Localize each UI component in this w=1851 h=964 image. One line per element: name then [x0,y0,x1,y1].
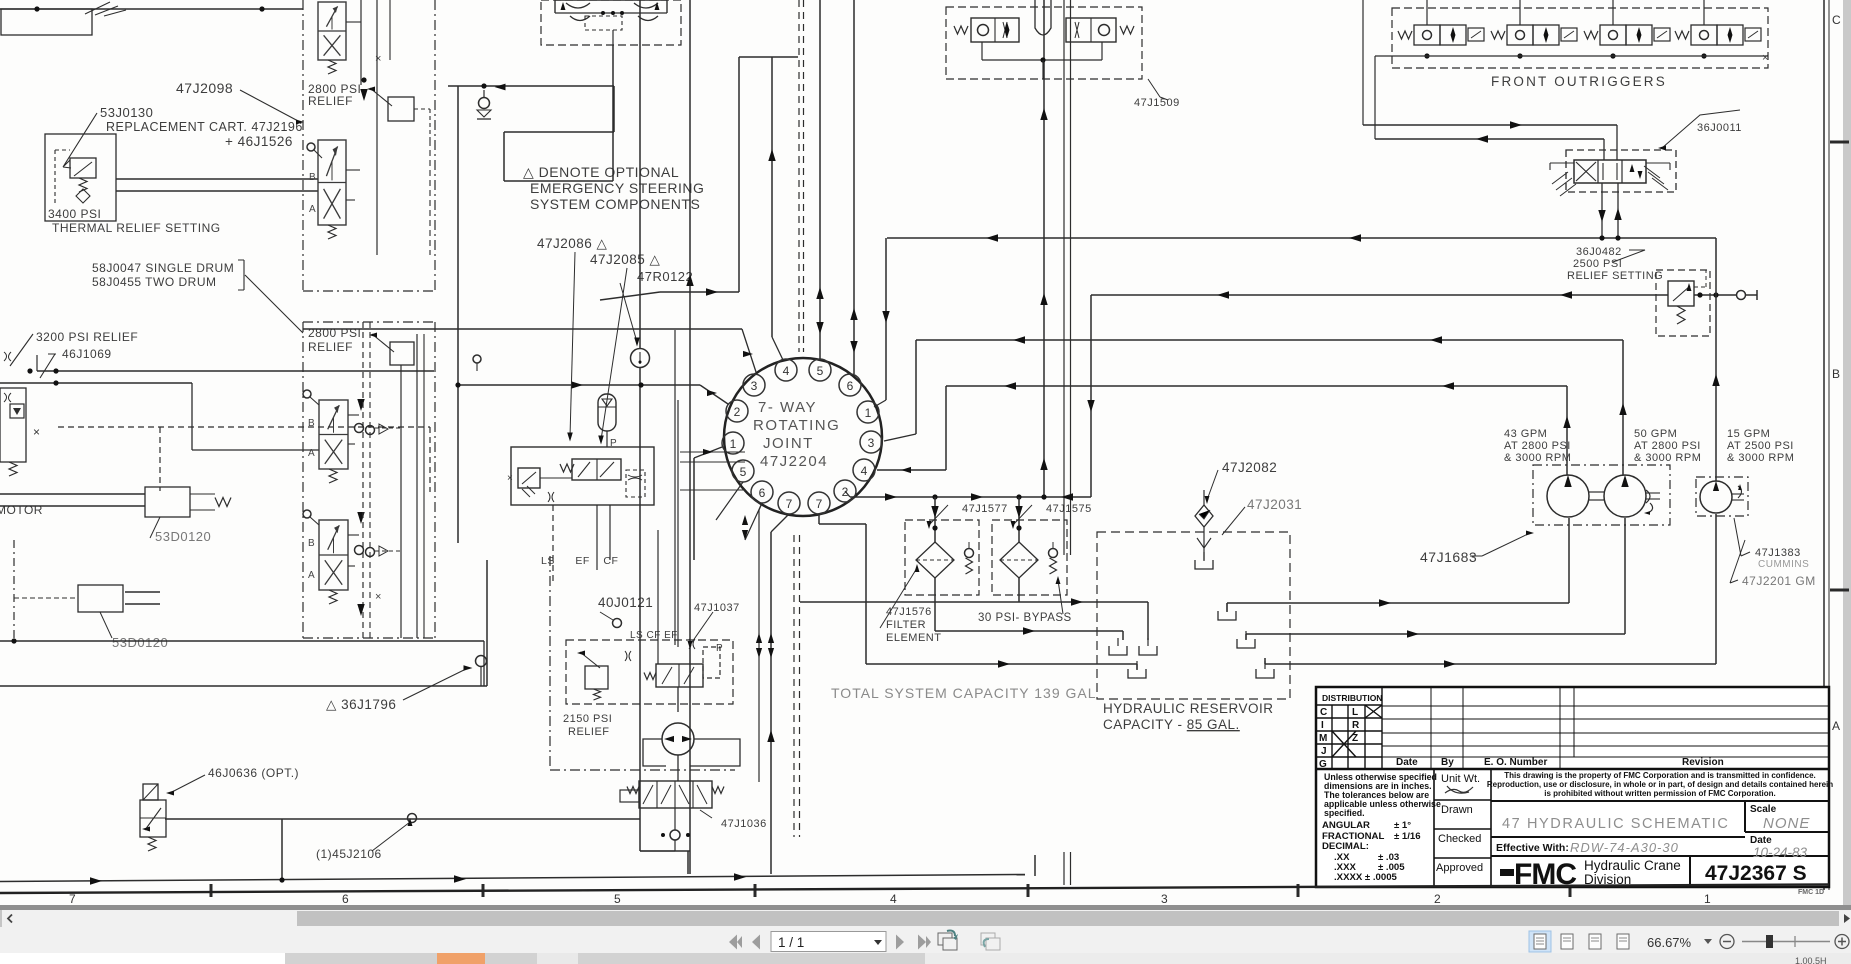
svg-text:specified.: specified. [1324,808,1365,818]
svg-text:1.00.5H: 1.00.5H [1795,956,1827,964]
svg-text:50 GPM: 50 GPM [1634,428,1677,440]
svg-text:Reproduction, use or disclosur: Reproduction, use or disclosure, in whol… [1487,780,1833,789]
svg-text:MOTOR: MOTOR [0,503,43,517]
svg-text:C: C [1832,13,1841,27]
svg-text:This drawing is the property o: This drawing is the property of FMC Corp… [1504,771,1816,780]
svg-text:7: 7 [816,497,823,511]
svg-text:L: L [1352,707,1358,718]
svg-text:4: 4 [890,892,897,906]
svg-text:ANGULAR: ANGULAR [1322,820,1370,831]
svg-text:Unit Wt.: Unit Wt. [1441,773,1480,785]
svg-text:53J0130: 53J0130 [100,105,153,120]
svg-text:36J0011: 36J0011 [1697,122,1742,134]
svg-text:Checked: Checked [1438,833,1481,845]
svg-text:7- WAY: 7- WAY [758,399,817,416]
svg-text:RELIEF: RELIEF [568,726,610,738]
svg-text:47J1509: 47J1509 [1134,97,1180,109]
svg-text:47J2367 S: 47J2367 S [1705,862,1807,885]
svg-text:×: × [375,53,381,65]
svg-text:1 / 1: 1 / 1 [778,935,804,950]
svg-text:58J0047 SINGLE DRUM: 58J0047 SINGLE DRUM [92,261,234,275]
svg-text:Scale: Scale [1750,804,1777,815]
svg-text:66.67%: 66.67% [1647,935,1692,950]
svg-text:47J1036: 47J1036 [721,818,767,830]
svg-text:ELEMENT: ELEMENT [886,632,941,644]
svg-text:47J2201 GM: 47J2201 GM [1742,574,1816,588]
svg-text:SYSTEM COMPONENTS: SYSTEM COMPONENTS [530,196,700,212]
svg-text:& 3000 RPM: & 3000 RPM [1634,452,1701,464]
svg-text:4: 4 [783,364,790,378]
svg-text:By: By [1441,757,1454,768]
svg-text:JOINT: JOINT [763,435,814,452]
svg-text:5: 5 [817,364,824,378]
svg-text:EMERGENCY STEERING: EMERGENCY STEERING [530,180,704,196]
svg-text:4: 4 [861,464,868,478]
svg-text:43 GPM: 43 GPM [1504,428,1547,440]
svg-text:53D0120: 53D0120 [112,635,168,650]
svg-text:RELIEF: RELIEF [308,94,353,108]
svg-text:7: 7 [786,497,793,511]
svg-text:THERMAL RELIEF SETTING: THERMAL RELIEF SETTING [52,221,221,235]
svg-text:B: B [1832,367,1840,381]
svg-text:47J2204: 47J2204 [760,453,828,470]
svg-text:58J0455 TWO DRUM: 58J0455 TWO DRUM [92,275,216,289]
svg-text:R: R [1352,720,1360,731]
svg-text:B: B [308,418,315,429]
svg-text:B: B [309,172,316,183]
svg-text:3: 3 [868,436,875,450]
svg-text:.XXXX ± .0005: .XXXX ± .0005 [1334,872,1398,883]
svg-text:1: 1 [730,437,737,451]
svg-text:47 HYDRAULIC SCHEMATIC: 47 HYDRAULIC SCHEMATIC [1502,816,1730,832]
svg-text:is prohibited without written: is prohibited without written permission… [1544,789,1776,798]
svg-text:TOTAL SYSTEM CAPACITY 139 GAL: TOTAL SYSTEM CAPACITY 139 GAL [831,685,1097,701]
svg-text:DISTRIBUTION: DISTRIBUTION [1322,693,1382,703]
svg-text:CUMMINS: CUMMINS [1758,559,1809,570]
svg-text:×: × [1762,52,1768,64]
svg-text:REPLACEMENT CART. 47J2196: REPLACEMENT CART. 47J2196 [106,120,303,134]
svg-text:AT 2500 PSI: AT 2500 PSI [1727,440,1794,452]
svg-text:& 3000 RPM: & 3000 RPM [1504,452,1571,464]
svg-text:7: 7 [69,892,76,906]
svg-text:47J1383: 47J1383 [1755,547,1801,559]
svg-text:40J0121: 40J0121 [598,595,653,610]
svg-text:1: 1 [1704,892,1711,906]
svg-text:6: 6 [342,892,349,906]
svg-text:2: 2 [1434,892,1441,906]
svg-text:×: × [33,425,40,439]
svg-text:J: J [1321,746,1327,757]
svg-text:47R0122: 47R0122 [637,269,693,284]
svg-text:6: 6 [759,486,766,500]
svg-text:47J1683: 47J1683 [1420,549,1477,565]
svg-text:47J1575: 47J1575 [1046,503,1092,515]
svg-text:DECIMAL:: DECIMAL: [1322,841,1369,852]
svg-text:C: C [1320,707,1327,718]
svg-text:Z: Z [1352,733,1358,744]
svg-text:AT 2800 PSI: AT 2800 PSI [1634,440,1701,452]
svg-text:46J0636 (OPT.): 46J0636 (OPT.) [208,766,299,780]
svg-text:NONE: NONE [1763,815,1810,832]
svg-text:5: 5 [614,892,621,906]
svg-text:FRONT OUTRIGGERS: FRONT OUTRIGGERS [1491,74,1667,89]
svg-text:RELIEF SETTING: RELIEF SETTING [1567,270,1663,282]
svg-text:A: A [309,204,316,215]
svg-text:+ 46J1526: + 46J1526 [225,134,293,149]
svg-text:△ DENOTE OPTIONAL: △ DENOTE OPTIONAL [523,164,679,180]
svg-text:Drawn: Drawn [1441,804,1473,816]
svg-text:3: 3 [1161,892,1168,906]
svg-text:15 GPM: 15 GPM [1727,428,1770,440]
svg-text:& 3000 RPM: & 3000 RPM [1727,452,1794,464]
svg-text:2800 PSI: 2800 PSI [308,326,361,340]
svg-text:(1)45J2106: (1)45J2106 [316,847,382,861]
svg-text:30 PSI- BYPASS: 30 PSI- BYPASS [978,612,1072,624]
svg-text:Hydraulic Crane: Hydraulic Crane [1584,858,1681,873]
svg-text:A: A [308,448,315,459]
svg-text:47J2086 △: 47J2086 △ [537,236,608,251]
svg-text:M: M [1319,733,1327,744]
svg-text:×: × [507,473,513,484]
svg-text:± 1°: ± 1° [1394,820,1411,831]
svg-text:×: × [375,591,381,603]
svg-text:Approved: Approved [1436,862,1483,874]
svg-text:3400 PSI: 3400 PSI [48,207,101,221]
svg-text:Effective With:: Effective With: [1496,842,1569,854]
svg-text:1: 1 [865,406,872,420]
svg-text:3: 3 [751,379,758,393]
svg-text:6: 6 [847,379,854,393]
svg-text:2150 PSI: 2150 PSI [563,713,612,725]
svg-text:HYDRAULIC RESERVOIR: HYDRAULIC RESERVOIR [1103,701,1274,716]
svg-text:Revision: Revision [1682,757,1724,768]
svg-text:47J2085 △: 47J2085 △ [590,252,661,267]
svg-text:47J1577: 47J1577 [962,503,1008,515]
svg-text:47J1037: 47J1037 [694,602,740,614]
svg-text:CAPACITY - 85 GAL.: CAPACITY - 85 GAL. [1103,717,1240,732]
svg-text:B: B [308,538,315,549]
svg-text:Date: Date [1396,757,1418,768]
svg-text:5: 5 [740,465,747,479]
svg-text:10-24-83: 10-24-83 [1753,845,1808,860]
svg-text:E. O. Number: E. O. Number [1484,757,1547,768]
svg-text:3200 PSI RELIEF: 3200 PSI RELIEF [36,330,138,344]
svg-text:RELIEF: RELIEF [308,340,353,354]
svg-text:I: I [1321,720,1324,731]
svg-text:ROTATING: ROTATING [753,417,840,434]
svg-text:47J2082: 47J2082 [1222,460,1277,475]
svg-text:2500 PSI: 2500 PSI [1573,258,1622,270]
svg-text:47J2098: 47J2098 [176,80,233,96]
svg-text:AT 2800 PSI: AT 2800 PSI [1504,440,1571,452]
svg-text:2: 2 [734,405,741,419]
svg-text:53D0120: 53D0120 [155,529,211,544]
svg-text:FMC 1D: FMC 1D [1798,889,1824,896]
svg-text:LS CF EF: LS CF EF [630,630,678,641]
svg-text:A: A [308,570,315,581]
svg-text:△ 36J1796: △ 36J1796 [326,697,396,712]
svg-text:47J2031: 47J2031 [1247,497,1302,512]
svg-text:± 1/16: ± 1/16 [1394,831,1421,842]
svg-text:FILTER: FILTER [886,619,926,631]
svg-text:A: A [1832,719,1840,733]
svg-text:46J1069: 46J1069 [62,347,112,361]
svg-text:RDW-74-A30-30: RDW-74-A30-30 [1570,840,1679,855]
svg-text:36J0482: 36J0482 [1576,246,1622,258]
